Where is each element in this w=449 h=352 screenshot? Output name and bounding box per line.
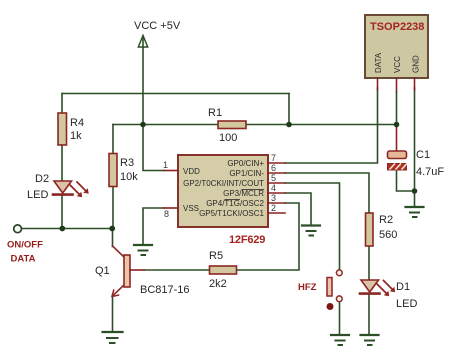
wire R3 bottom	[112, 187, 114, 229]
wire D2 cathode	[61, 196, 63, 229]
pin 1 VDD stub	[164, 170, 178, 172]
ground (switch)	[331, 335, 349, 345]
svg-text:6: 6	[271, 163, 276, 173]
svg-text:R4: R4	[70, 117, 84, 129]
ground (D1)	[361, 335, 379, 345]
svg-text:C1: C1	[416, 149, 430, 161]
terminal ON/OFF DATA	[7, 225, 43, 265]
wire C1 bottom to GND node	[397, 170, 415, 191]
svg-text:4.7uF: 4.7uF	[416, 166, 444, 178]
wire switch to ground	[339, 302, 341, 335]
svg-text:R2: R2	[379, 214, 393, 226]
svg-text:R3: R3	[120, 157, 134, 169]
svg-text:560: 560	[379, 229, 397, 241]
ground (pin4 GP3)	[302, 226, 320, 236]
svg-text:R5: R5	[209, 250, 223, 262]
wire D1 to ground	[368, 294, 370, 336]
svg-text:TSOP2238: TSOP2238	[370, 21, 424, 33]
IC U1 12F629	[163, 153, 285, 246]
svg-text:ON/OFF: ON/OFF	[7, 240, 43, 251]
wire Q1 collector	[112, 229, 114, 247]
junction node R1 out	[286, 122, 292, 128]
svg-text:GND: GND	[411, 55, 420, 73]
pin 2 stub	[268, 212, 285, 214]
svg-text:5: 5	[271, 173, 276, 183]
pin VCC stub	[396, 78, 398, 92]
svg-text:2: 2	[271, 203, 276, 213]
transistor Q1 BC817-16	[95, 246, 190, 297]
wire R4 to D2	[61, 145, 63, 181]
svg-text:1k: 1k	[70, 130, 82, 142]
svg-text:D1: D1	[396, 281, 410, 293]
svg-text:7: 7	[271, 153, 276, 163]
junction node C1/GND	[412, 188, 418, 194]
wire R2 to D1	[368, 246, 370, 280]
svg-text:D2: D2	[35, 173, 49, 185]
svg-text:GP1/CIN-: GP1/CIN-	[229, 169, 264, 178]
wire pin7 to TSOP DATA	[285, 88, 378, 163]
svg-text:DATA: DATA	[374, 52, 383, 73]
svg-text:DATA: DATA	[11, 254, 36, 265]
wire TSOP GND down	[414, 88, 416, 191]
svg-text:BC817-16: BC817-16	[140, 284, 190, 296]
svg-text:LED: LED	[27, 189, 48, 201]
pin 6 stub	[268, 172, 285, 174]
svg-text:HFZ: HFZ	[298, 282, 317, 293]
wire ON/OFF DATA	[22, 228, 114, 230]
pin 4 stub	[268, 192, 285, 194]
wire top rail	[62, 93, 289, 95]
svg-text:R1: R1	[208, 107, 222, 119]
wire VDD pin1	[143, 125, 164, 171]
svg-text:GP0/CIN+: GP0/CIN+	[227, 159, 264, 168]
wire Q1 emitter to ground	[112, 295, 114, 332]
svg-text:GP3/MCLR: GP3/MCLR	[223, 189, 264, 198]
junction node D2/ON-OFF	[59, 226, 65, 232]
svg-text:12F629: 12F629	[229, 234, 265, 246]
wire R3 top	[112, 125, 114, 154]
wire vertical R1-out to top rail	[288, 94, 290, 125]
resistor R3 10k	[109, 154, 138, 187]
svg-text:Q1: Q1	[95, 265, 110, 277]
svg-text:GP4/T1G/OSC2: GP4/T1G/OSC2	[206, 199, 264, 208]
svg-text:LED: LED	[396, 298, 417, 310]
LED D2	[27, 173, 89, 201]
svg-text:4: 4	[271, 183, 276, 193]
pin GND stub	[414, 78, 416, 90]
pin 3 stub	[268, 202, 285, 204]
ground (C1/TSOP GND)	[406, 207, 424, 217]
LED D1	[360, 280, 417, 310]
push button HFZ	[298, 270, 342, 310]
wire Q1 base to R5	[144, 269, 210, 271]
junction node VCC rail	[140, 122, 146, 128]
svg-text:100: 100	[219, 132, 237, 144]
wire VSS pin8 to ground	[143, 208, 164, 245]
svg-text:GP5/T1CKI/OSC1: GP5/T1CKI/OSC1	[199, 209, 264, 218]
wire VCC rail	[113, 124, 397, 126]
pin DATA stub	[377, 78, 379, 90]
wire pin5 to switch	[285, 183, 340, 269]
junction node R3/Q1 collector	[109, 226, 115, 232]
junction node TSOP VCC	[394, 122, 400, 128]
IR receiver TSOP2238	[365, 15, 428, 151]
ground (VSS)	[134, 245, 152, 255]
wire pin4 to ground	[285, 193, 311, 226]
wire GND node to ground	[414, 191, 416, 207]
svg-text:1: 1	[163, 160, 168, 170]
ground (Q1 emitter)	[103, 332, 123, 343]
svg-text:10k: 10k	[120, 171, 138, 183]
pin 7 stub	[268, 162, 285, 164]
power symbol VCC +5V	[134, 20, 181, 125]
wire R5 to pin3	[237, 203, 300, 270]
svg-text:VSS: VSS	[183, 204, 199, 213]
svg-text:GP2/T0CKI/INT/COUT: GP2/T0CKI/INT/COUT	[183, 179, 264, 188]
capacitor C1 4.7uF	[388, 149, 445, 178]
wire R4 top	[61, 94, 63, 114]
svg-text:3: 3	[271, 193, 276, 203]
svg-text:VCC +5V: VCC +5V	[134, 20, 181, 32]
wire pin6 to R2	[285, 173, 369, 213]
svg-text:VDD: VDD	[183, 167, 200, 176]
resistor R4 1k	[58, 113, 84, 145]
resistor R5 2k2	[209, 250, 237, 290]
svg-text:2k2: 2k2	[209, 278, 227, 290]
resistor R1 100	[208, 107, 246, 144]
pin 5 stub	[268, 182, 285, 184]
resistor R2 560	[366, 213, 398, 246]
svg-text:VCC: VCC	[393, 56, 402, 73]
svg-text:8: 8	[164, 209, 169, 219]
pin 8 VSS stub	[164, 207, 178, 209]
